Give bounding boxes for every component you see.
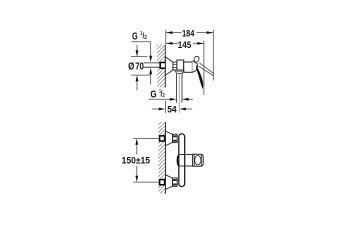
escutcheon cone (side view) (165, 57, 173, 75)
supply pipe stub in wall (143, 63, 160, 67)
lever blade (dark, pointing down) (196, 65, 203, 88)
outlet pipe (shower outlet, G 1/2) (176, 74, 178, 103)
leader underline with arrow to outlet pipe left (149, 98, 171, 100)
wall face line (side view) (164, 45, 166, 88)
wall union square (side view) (160, 63, 166, 69)
svg-text:145: 145 (178, 40, 191, 50)
mixer body rear section (side view) (177, 60, 184, 70)
upper wall union square (plan view) (160, 136, 165, 141)
outlet collar below body (175, 70, 184, 74)
handle stem lines (plan view) (179, 154, 193, 156)
cartridge dome (side view) (192, 61, 197, 72)
svg-text:54: 54 (167, 104, 177, 114)
leader line from G 1/2 to supply pipe (131, 41, 151, 43)
wall hatching (plan view) (150, 106, 170, 211)
arrow up to bottom extent (136, 81, 138, 90)
arrow to outlet pipe right (187, 98, 192, 100)
arrow down to top extent (136, 45, 138, 51)
wall hatching (side view) (149, 30, 169, 102)
svg-text:Ø70: Ø70 (128, 62, 144, 73)
svg-text:184: 184 (182, 28, 194, 38)
lever loop upper line (199, 63, 213, 73)
handle knob (plan view, end-on) (193, 154, 204, 166)
lever handle curl (side view) (194, 56, 199, 63)
mixer body front section (side view) (184, 62, 193, 72)
bottom extent line of diameter 70 (131, 74, 150, 76)
lower escutcheon cone (plan view) (166, 175, 173, 190)
dimension 145 (166, 41, 204, 95)
lever loop end (212, 73, 215, 75)
upper escutcheon cone (plan view) (166, 131, 173, 146)
lever loop lower line (199, 66, 213, 75)
wall face line (plan view) (165, 122, 167, 194)
mounting boss arc on capsule (177, 155, 178, 165)
svg-text:150±15: 150±15 (122, 155, 151, 166)
dimension 54 (152, 108, 160, 110)
top extent line of diameter 70 (131, 56, 147, 58)
dimension 150±15 (133, 137, 159, 139)
mixer body capsule (plan view) (179, 134, 185, 187)
lower union nut (plan view) (173, 178, 178, 186)
arrow to supply pipe bottom (150, 74, 152, 85)
upper union nut (plan view) (173, 134, 178, 142)
dimension 184 (166, 30, 214, 81)
lower wall union square (plan view) (160, 180, 165, 185)
union nut (side view) (173, 62, 177, 70)
